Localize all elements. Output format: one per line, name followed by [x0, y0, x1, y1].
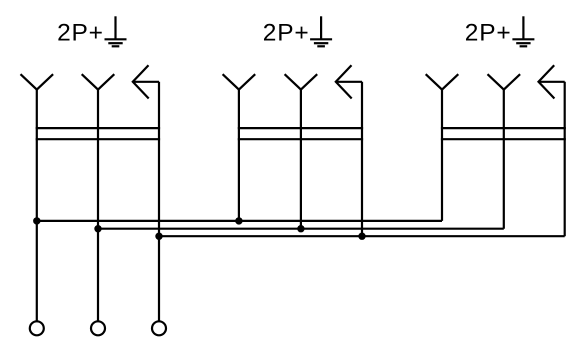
- svg-text:2P+: 2P+: [465, 20, 512, 47]
- svg-text:2P+: 2P+: [57, 20, 104, 47]
- svg-text:2P+: 2P+: [263, 20, 310, 47]
